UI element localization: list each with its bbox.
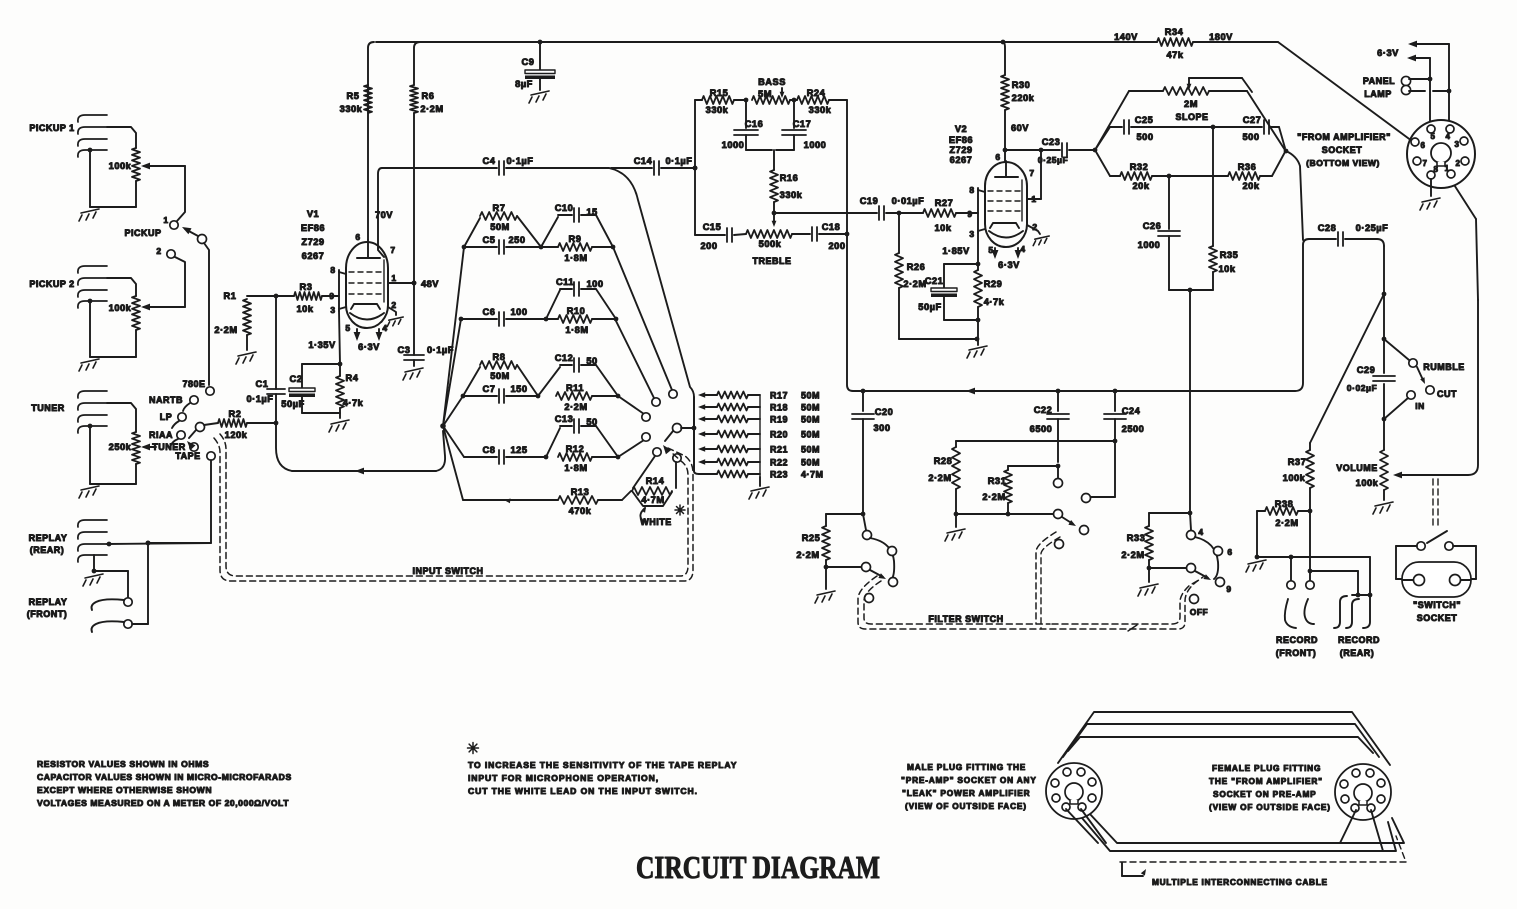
svg-text:125: 125	[510, 445, 527, 455]
capacitor C9 8uF	[515, 40, 555, 90]
svg-text:2·2M: 2·2M	[796, 550, 819, 560]
resistor R3 10k	[294, 282, 339, 314]
filter3 contact arc	[1195, 537, 1218, 579]
wire hub fan	[443, 247, 464, 500]
record front contact b	[1306, 511, 1314, 589]
resistor R10 1.8M	[558, 306, 592, 335]
svg-text:TUNER: TUNER	[31, 403, 65, 413]
svg-text:R7: R7	[493, 203, 506, 213]
svg-text:LP: LP	[160, 412, 173, 422]
ground replay rear	[83, 555, 128, 598]
wire row3	[461, 394, 621, 399]
svg-text:100k: 100k	[1356, 478, 1379, 488]
svg-text:C23: C23	[1042, 137, 1061, 147]
svg-text:500: 500	[1242, 132, 1259, 142]
tube V2 EF86 envelope	[985, 162, 1027, 247]
svg-text:60V: 60V	[1011, 123, 1029, 133]
capacitor C20 300	[852, 391, 893, 516]
svg-text:3: 3	[330, 305, 335, 315]
V1 cathode	[350, 304, 384, 320]
svg-text:5M: 5M	[758, 89, 772, 99]
svg-text:200: 200	[700, 241, 717, 251]
V1 grids	[349, 272, 385, 294]
svg-text:R34: R34	[1165, 27, 1184, 37]
resistor R35 10k	[1209, 127, 1238, 290]
svg-text:50µF: 50µF	[918, 302, 941, 312]
capacitor C26 1000	[1138, 176, 1180, 290]
svg-text:330k: 330k	[780, 190, 803, 200]
label male plug	[901, 762, 1037, 811]
capacitor C13 50	[546, 414, 618, 457]
wire slope node down to filter	[1189, 290, 1191, 513]
svg-text:Z729: Z729	[301, 237, 324, 247]
resistor R28 2.2M	[928, 441, 1113, 516]
svg-text:R23: R23	[770, 470, 788, 480]
svg-text:0·1µF: 0·1µF	[247, 394, 274, 404]
svg-text:6267: 6267	[950, 155, 973, 165]
title CIRCUIT DIAGRAM	[636, 849, 880, 885]
wire C1/R2 to feedback line	[276, 423, 292, 471]
input switch contact D	[642, 433, 650, 441]
input selector wiper	[187, 423, 205, 451]
svg-text:C24: C24	[1122, 406, 1141, 416]
svg-text:C15: C15	[703, 222, 722, 232]
filter switch linkage (dashed)	[858, 532, 1203, 629]
contact RUMBLE	[1409, 359, 1465, 372]
cable label pointer	[1122, 863, 1146, 876]
svg-text:(FRONT): (FRONT)	[27, 609, 68, 619]
svg-text:220k: 220k	[1012, 93, 1035, 103]
svg-text:3: 3	[969, 229, 974, 239]
svg-text:C6: C6	[483, 307, 496, 317]
svg-text:0·1µF: 0·1µF	[427, 345, 454, 355]
svg-text:10k: 10k	[296, 304, 313, 314]
input switch contact A	[652, 398, 660, 406]
svg-text:"SWITCH": "SWITCH"	[1413, 600, 1461, 610]
replay front contact lower	[92, 620, 133, 632]
svg-text:4·7k: 4·7k	[984, 297, 1005, 307]
wire socket pin5 up	[1407, 55, 1432, 125]
feedback wire to hub	[292, 431, 445, 474]
label REPLAY FRONT	[27, 597, 68, 619]
V1 pin labels	[329, 232, 396, 333]
svg-text:1: 1	[163, 215, 168, 225]
wiper arrow pickup1	[141, 163, 185, 170]
wire row4	[464, 455, 620, 460]
contact NARTB	[149, 395, 198, 411]
label RECORD FRONT	[1276, 635, 1318, 658]
svg-text:9: 9	[329, 291, 334, 301]
capacitor C28 0.25uF	[1309, 223, 1388, 246]
svg-text:MALE PLUG FITTING THE: MALE PLUG FITTING THE	[907, 762, 1026, 772]
label FILTER SWITCH	[928, 614, 1137, 631]
svg-text:2M: 2M	[1184, 99, 1198, 109]
record rear prongs	[1334, 595, 1370, 628]
rumble arm to cut	[1417, 367, 1425, 384]
capacitor C4 0.1uF	[382, 156, 609, 175]
V2 grids	[988, 191, 1024, 211]
wire HT rail	[376, 41, 1278, 43]
V1 label stack	[301, 209, 325, 261]
svg-text:RECORD: RECORD	[1338, 635, 1380, 645]
contact 780E	[182, 379, 214, 395]
svg-text:2·2M: 2·2M	[903, 279, 926, 289]
V1 heater pins	[354, 329, 383, 352]
filter2 wiper	[956, 510, 1063, 519]
wire pickup1 jack to pot	[107, 127, 136, 148]
svg-text:15: 15	[586, 207, 597, 217]
ground R33	[1138, 568, 1158, 596]
wire pickup2 jack to pot	[107, 278, 136, 296]
filter2 OFF contact	[1055, 540, 1064, 549]
svg-text:4·7k: 4·7k	[343, 398, 364, 408]
ground volume	[1373, 502, 1393, 514]
wire IN contact	[1384, 398, 1408, 419]
svg-text:EF86: EF86	[949, 135, 973, 145]
V2 suppressor line	[1021, 180, 1023, 221]
capacitor C12 50	[538, 353, 618, 396]
svg-text:100k: 100k	[109, 303, 132, 313]
wire row4 to contact	[618, 440, 644, 457]
capacitor C25 500	[1095, 115, 1262, 150]
svg-text:50M: 50M	[801, 430, 820, 440]
wire C20 to contacts	[826, 514, 866, 530]
svg-text:1·35V: 1·35V	[308, 340, 336, 350]
potentiometer 250k (tuner)	[109, 432, 140, 484]
svg-text:CAPACITOR VALUES SHOWN IN: CAPACITOR VALUES SHOWN IN MICRO-MICROFAR…	[37, 772, 292, 782]
svg-text:RUMBLE: RUMBLE	[1423, 362, 1465, 372]
resistor R29 4.7k	[974, 264, 1005, 345]
svg-text:C21: C21	[925, 276, 944, 286]
contact TAPE	[175, 451, 215, 461]
wire socket pin1 to loop	[1451, 180, 1478, 300]
pickup 2 input jack	[29, 266, 107, 308]
cable band middle	[1063, 724, 1396, 851]
svg-text:R5: R5	[347, 91, 360, 101]
svg-text:R33: R33	[1127, 533, 1146, 543]
svg-text:6·3V: 6·3V	[358, 342, 380, 352]
contact LP	[160, 412, 186, 428]
switch socket toggle	[1417, 531, 1453, 550]
svg-text:47k: 47k	[1166, 50, 1183, 60]
contact TUNER	[152, 442, 198, 452]
svg-text:9: 9	[1226, 584, 1231, 594]
svg-text:R26: R26	[907, 262, 926, 272]
svg-text:6267: 6267	[302, 251, 325, 261]
ground tuner jack	[79, 424, 136, 498]
capacitor C11 100	[546, 277, 616, 319]
svg-text:(REAR): (REAR)	[1340, 648, 1375, 658]
svg-text:500k: 500k	[759, 239, 782, 249]
wire row2 to contact	[616, 321, 654, 398]
potentiometer 500k TREBLE	[746, 230, 792, 266]
V2 pin bracket	[976, 188, 985, 233]
FROM AMPLIFIER socket outline	[1407, 120, 1475, 188]
svg-text:R24: R24	[807, 88, 826, 98]
svg-text:2·2M: 2·2M	[982, 492, 1005, 502]
filter1 arm	[870, 570, 886, 579]
svg-text:1·8M: 1·8M	[565, 325, 588, 335]
wire replay rear to tape line	[107, 541, 211, 547]
contact 2 (pickup switch)	[156, 246, 175, 258]
ground pickup2	[79, 299, 136, 371]
svg-text:C12: C12	[555, 353, 574, 363]
svg-text:2·2M: 2·2M	[564, 402, 587, 412]
svg-text:2·2M: 2·2M	[1275, 518, 1298, 528]
capacitor C1 0.1uF	[247, 296, 285, 425]
svg-text:(REAR): (REAR)	[30, 545, 65, 555]
filter3 wiper	[1149, 564, 1196, 573]
input switch wiper	[673, 424, 693, 433]
svg-text:R12: R12	[566, 444, 585, 454]
svg-text:7: 7	[390, 245, 395, 255]
svg-text:8: 8	[330, 265, 335, 275]
capacitor C14 0.1uF	[611, 156, 697, 175]
svg-text:(FRONT): (FRONT)	[1276, 648, 1317, 658]
svg-text:330k: 330k	[809, 105, 832, 115]
svg-text:6500: 6500	[1030, 424, 1053, 434]
svg-text:MULTIPLE INTERCONNECTING CAB: MULTIPLE INTERCONNECTING CABLE	[1152, 877, 1328, 887]
svg-text:4: 4	[382, 323, 387, 333]
input switch contact C	[642, 413, 650, 421]
label PICKUP (switch)	[124, 228, 161, 238]
input switch contact E	[653, 448, 661, 456]
switch socket wires	[1396, 546, 1476, 579]
svg-text:7: 7	[1029, 168, 1034, 178]
filter3 contact 6	[1214, 547, 1233, 558]
ground R25	[815, 567, 835, 603]
svg-text:INPUT FOR MICROPHONE OPERAT: INPUT FOR MICROPHONE OPERATION,	[468, 773, 659, 783]
svg-text:R9: R9	[569, 234, 582, 244]
capacitor C8 125	[483, 445, 528, 464]
V1 cathode wire	[308, 311, 342, 366]
svg-text:0·25µF: 0·25µF	[1038, 155, 1068, 165]
capacitor C29 0.02uF	[1347, 365, 1395, 393]
pickup 1 input jack	[29, 115, 107, 157]
svg-text:R16: R16	[780, 173, 799, 183]
svg-text:R20: R20	[770, 430, 788, 440]
ground pickup1	[79, 148, 136, 221]
svg-text:EF86: EF86	[301, 223, 325, 233]
svg-text:TO INCREASE THE SENSITIVITY: TO INCREASE THE SENSITIVITY OF THE TAPE …	[468, 760, 737, 770]
svg-text:CUT: CUT	[1437, 389, 1457, 399]
svg-text:(VIEW OF OUTSIDE FACE): (VIEW OF OUTSIDE FACE)	[905, 801, 1027, 811]
svg-text:20k: 20k	[1242, 181, 1259, 191]
svg-text:2: 2	[156, 246, 161, 256]
label 70V	[375, 210, 393, 220]
svg-text:INPUT SWITCH: INPUT SWITCH	[413, 566, 484, 576]
tuner input jack	[31, 391, 107, 433]
capacitor C22 6500	[1030, 391, 1069, 462]
svg-text:REPLAY: REPLAY	[29, 597, 68, 607]
svg-text:1000: 1000	[804, 140, 827, 150]
filter3 arm	[1195, 571, 1211, 580]
wire pickup2 wiper to contact 2	[175, 257, 185, 307]
svg-text:WHITE: WHITE	[640, 517, 672, 527]
svg-text:140V: 140V	[1114, 32, 1138, 42]
wire R17-23 left bus	[693, 397, 695, 471]
V1 anode	[357, 240, 380, 258]
contact RIAA	[149, 430, 185, 445]
svg-text:R10: R10	[567, 306, 586, 316]
node hub (V1 grid network)	[440, 423, 446, 429]
resistor R34 47k	[1114, 27, 1233, 60]
svg-text:50: 50	[586, 356, 597, 366]
resistor R5 330k	[340, 42, 374, 240]
panel lamp	[1363, 76, 1449, 99]
resistor R37 100k	[1283, 443, 1314, 513]
filter1 contact 3	[889, 578, 898, 587]
pickup switch wiper	[182, 227, 207, 244]
resistor R21 50M	[698, 445, 820, 455]
wire row3 to contact	[618, 396, 644, 414]
ground R1	[236, 352, 256, 364]
record front plug hooks	[1285, 599, 1314, 628]
potentiometer 2M SLOPE	[1095, 87, 1285, 150]
wire row1	[462, 245, 616, 250]
svg-text:SOCKET ON PRE-AMP: SOCKET ON PRE-AMP	[1213, 789, 1317, 799]
svg-text:100: 100	[586, 279, 603, 289]
svg-text:50M: 50M	[801, 445, 820, 455]
svg-text:TAPE: TAPE	[175, 451, 200, 461]
resistor R2 120k	[218, 409, 276, 440]
female plug pin leads	[1340, 810, 1383, 851]
svg-text:C19: C19	[860, 196, 879, 206]
capacitor C15 200	[695, 222, 746, 251]
V2 cathode	[989, 223, 1023, 238]
svg-text:180V: 180V	[1209, 32, 1233, 42]
filter3 contact 9	[1216, 578, 1232, 595]
svg-text:2: 2	[1456, 159, 1461, 168]
svg-text:C28: C28	[1318, 223, 1337, 233]
input switch contact B	[669, 390, 677, 398]
svg-text:C18: C18	[822, 222, 841, 232]
resistor R22 50M	[698, 458, 820, 468]
svg-text:100: 100	[510, 307, 527, 317]
label FROM AMPLIFIER SOCKET	[1297, 132, 1391, 168]
label 6.3V (socket)	[1377, 48, 1399, 58]
svg-text:120k: 120k	[225, 430, 248, 440]
svg-text:R31: R31	[988, 476, 1007, 486]
capacitor C24 2500	[1104, 391, 1144, 443]
svg-text:R11: R11	[566, 383, 584, 393]
svg-text:0·1µF: 0·1µF	[507, 156, 534, 166]
svg-text:Z729: Z729	[949, 145, 972, 155]
svg-text:VOLTAGES MEASURED ON A MET: VOLTAGES MEASURED ON A METER OF 20,000Ω/…	[37, 798, 289, 808]
svg-text:2·2M: 2·2M	[214, 325, 237, 335]
svg-text:R15: R15	[710, 88, 729, 98]
svg-text:1000: 1000	[1138, 240, 1161, 250]
contact 1 (pickup switch)	[163, 215, 178, 229]
resistor R18 50M	[698, 403, 820, 413]
svg-text:8µF: 8µF	[515, 79, 533, 89]
svg-text:R14: R14	[646, 476, 665, 486]
filter2 contact end	[1080, 526, 1089, 535]
wire tap to wiper bus	[609, 168, 699, 474]
resistor R27 10k	[897, 198, 976, 233]
svg-text:C11: C11	[556, 277, 574, 287]
svg-text:6: 6	[995, 152, 1000, 162]
svg-text:470k: 470k	[569, 506, 592, 516]
V1 suppressor line	[383, 260, 385, 302]
svg-text:TREBLE: TREBLE	[753, 256, 792, 266]
wire C26/R35 junction	[1169, 288, 1213, 293]
capacitor C10 15	[541, 203, 613, 247]
resistor R14 4.7M	[632, 456, 676, 506]
svg-text:C29: C29	[1357, 365, 1376, 375]
label female plug	[1209, 763, 1331, 812]
V2 label stack	[949, 124, 973, 165]
svg-text:C10: C10	[555, 203, 574, 213]
socket keyway	[1431, 143, 1451, 166]
svg-text:C25: C25	[1135, 115, 1154, 125]
svg-text:CUT THE WHITE LEAD ON THE: CUT THE WHITE LEAD ON THE INPUT SWITCH.	[468, 786, 698, 796]
svg-text:R4: R4	[346, 373, 359, 383]
svg-text:R35: R35	[1220, 250, 1239, 260]
svg-text:REPLAY: REPLAY	[29, 533, 68, 543]
svg-text:330k: 330k	[340, 104, 363, 114]
svg-text:LAMP: LAMP	[1364, 89, 1392, 99]
resistor R33 2.2M	[1121, 513, 1153, 570]
svg-text:R38: R38	[1275, 499, 1294, 509]
svg-text:6·3V: 6·3V	[1377, 48, 1399, 58]
wire row2	[459, 317, 619, 322]
svg-text:R19: R19	[770, 415, 788, 425]
svg-text:C14: C14	[634, 156, 653, 166]
wire to record rear	[1310, 571, 1360, 597]
svg-text:50M: 50M	[801, 403, 820, 413]
svg-text:6: 6	[1227, 547, 1232, 557]
capacitor C16 1000	[722, 100, 772, 150]
filter1 contact arc	[870, 538, 894, 580]
resistor R12 1.8M	[558, 444, 592, 473]
wire tone input bus	[693, 100, 698, 235]
svg-text:THE "FROM AMPLIFIER": THE "FROM AMPLIFIER"	[1209, 776, 1323, 786]
svg-text:2500: 2500	[1122, 424, 1145, 434]
svg-text:V2: V2	[955, 124, 967, 134]
wire treble out down to rail	[847, 100, 853, 391]
svg-text:C2: C2	[290, 374, 303, 384]
wire feedback rail	[853, 388, 1295, 395]
wire output bus	[1382, 246, 1387, 450]
svg-text:R36: R36	[1238, 162, 1257, 172]
svg-text:C13: C13	[555, 414, 574, 424]
V2 cathode wire	[976, 233, 981, 266]
resistor R7 50M	[464, 203, 541, 247]
filter1 wiper	[826, 563, 871, 572]
resistor R20 50M	[698, 430, 820, 440]
volume wiper feed	[1393, 300, 1478, 478]
svg-text:2·2M: 2·2M	[420, 104, 443, 114]
svg-text:CIRCUIT DIAGRAM: CIRCUIT DIAGRAM	[636, 849, 880, 885]
resistor R19 50M	[698, 415, 820, 425]
resistor R31 2.2M	[982, 464, 1060, 517]
V2 anode	[995, 161, 1018, 177]
svg-text:V1: V1	[307, 209, 319, 219]
capacitor C18 200	[792, 222, 849, 251]
svg-text:50M: 50M	[801, 391, 820, 401]
svg-text:0·01µF: 0·01µF	[892, 196, 925, 206]
svg-text:FEMALE PLUG FITTING: FEMALE PLUG FITTING	[1212, 763, 1321, 773]
wire R37 tap diagonal	[1310, 294, 1384, 443]
svg-text:50M: 50M	[490, 222, 510, 232]
svg-text:250: 250	[508, 235, 525, 245]
svg-text:BASS: BASS	[758, 77, 786, 87]
svg-text:50M: 50M	[490, 371, 510, 381]
resistor R23 4.7M	[699, 470, 824, 480]
socket pins	[1411, 125, 1469, 179]
asterisk (white lead note)	[675, 505, 685, 515]
